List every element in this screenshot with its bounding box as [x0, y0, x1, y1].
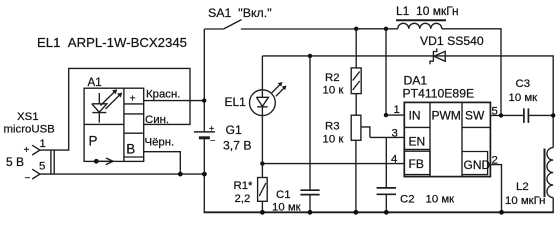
wire red to battery plus [144, 100, 205, 102]
node R1 bottom [260, 210, 265, 215]
svg-text:VD1 SS540: VD1 SS540 [420, 34, 484, 48]
svg-text:1: 1 [40, 138, 46, 150]
svg-text:C3: C3 [516, 78, 531, 90]
inductor L2 [505, 148, 553, 213]
node C1 top [308, 54, 312, 58]
wire battery minus down [203, 138, 205, 212]
svg-text:3: 3 [392, 128, 398, 140]
svg-text:A1: A1 [88, 76, 102, 89]
capacitor C2 [377, 137, 456, 211]
svg-text:10 к: 10 к [323, 85, 345, 97]
svg-text:3,7 В: 3,7 В [223, 139, 251, 153]
P cell dot and arrow [94, 159, 99, 164]
svg-text:C2: C2 [400, 194, 415, 206]
svg-text:+: + [130, 93, 136, 105]
svg-text:microUSB: microUSB [4, 124, 55, 136]
wire L1 to SW node [442, 29, 501, 116]
svg-text:SW: SW [465, 109, 485, 123]
resistor R3 trimmer [323, 94, 370, 212]
node R3 bottom [354, 210, 359, 215]
wire pin1 to A1 loop (+5V to blue wire) [40, 68, 190, 150]
svg-text:PWM: PWM [432, 109, 461, 123]
svg-text:L1 10 мкГн: L1 10 мкГн [396, 4, 459, 18]
svg-text:5 В: 5 В [6, 155, 24, 169]
svg-text:R2: R2 [325, 72, 340, 84]
svg-text:Красн.: Красн. [146, 89, 180, 101]
wire IN feed vertical [385, 29, 387, 115]
connector XS1 pin 1 [32, 145, 40, 155]
battery G1 [194, 124, 215, 146]
diode VD1 schottky [430, 48, 445, 64]
wire FB line [262, 163, 404, 165]
svg-text:10 мк: 10 мк [509, 92, 539, 104]
svg-text:C1: C1 [276, 189, 291, 201]
svg-text:10 к: 10 к [323, 134, 345, 146]
LED inside A1 [92, 89, 122, 122]
wire pin5 SW to C3 [490, 114, 524, 116]
svg-text:R1*: R1* [234, 180, 254, 192]
capacitor C3 [509, 78, 554, 123]
svg-text:R3: R3 [325, 121, 340, 133]
svg-text:1: 1 [394, 104, 400, 116]
svg-text:−: − [25, 173, 31, 184]
module A1 inner box [84, 76, 144, 161]
svg-text:FB: FB [409, 157, 424, 171]
svg-text:+: + [24, 145, 30, 156]
lamp EL1 [225, 56, 287, 164]
svg-text:GND: GND [464, 158, 491, 172]
svg-text:В: В [126, 142, 135, 157]
node L1 left [384, 27, 388, 31]
svg-text:2,2: 2,2 [235, 193, 251, 205]
chip DA1 [403, 74, 491, 177]
svg-text:L2: L2 [516, 181, 529, 193]
wire pin1 [386, 114, 404, 116]
resistor R1 [234, 164, 268, 212]
svg-text:DA1: DA1 [404, 74, 428, 88]
wire pin2 GND down [490, 165, 501, 212]
resistor R2 [323, 29, 362, 97]
svg-text:10 мкГн: 10 мкГн [505, 195, 545, 207]
ground rail bottom [204, 211, 554, 213]
capacitor C1 [272, 56, 320, 214]
wire top rail from SA1 to L1 [356, 28, 398, 30]
svg-text:PT4110E89E: PT4110E89E [403, 87, 475, 101]
svg-text:10 мк: 10 мк [426, 194, 456, 206]
svg-text:Чёрн.: Чёрн. [145, 137, 175, 149]
svg-text:4: 4 [391, 154, 397, 166]
node C1 bottom [308, 210, 313, 215]
svg-text:IN: IN [409, 109, 421, 123]
svg-text:Р: Р [89, 134, 98, 149]
connector XS1 pin 5 [32, 169, 40, 179]
wire black to minus line [144, 152, 181, 174]
node EL1 cathode / FB [260, 161, 264, 165]
wire EN line [370, 136, 404, 138]
svg-text:Син.: Син. [145, 114, 169, 126]
svg-text:EL1: EL1 [225, 95, 247, 109]
svg-text:EL1 ARPL-1W-BCX2345: EL1 ARPL-1W-BCX2345 [37, 35, 187, 50]
connector separator lines [51, 150, 54, 174]
switch SA1 [204, 20, 356, 29]
svg-text:G1: G1 [226, 123, 242, 137]
svg-text:SA1 "Вкл.": SA1 "Вкл." [208, 6, 272, 20]
svg-text:−: − [210, 136, 215, 146]
wire VD1 line (EL1 top to right column) [262, 56, 553, 148]
inductor L1 [396, 20, 446, 29]
node R2 top [354, 27, 358, 31]
node C2 bottom [384, 210, 389, 215]
svg-text:XS1: XS1 [17, 111, 39, 123]
wire SA1 left vertical to battery [203, 29, 205, 131]
wire pin5 minus line [40, 173, 205, 175]
node GND bottom [499, 210, 504, 215]
svg-text:+: + [209, 124, 214, 134]
svg-text:EN: EN [409, 135, 426, 149]
svg-text:5: 5 [39, 161, 45, 173]
